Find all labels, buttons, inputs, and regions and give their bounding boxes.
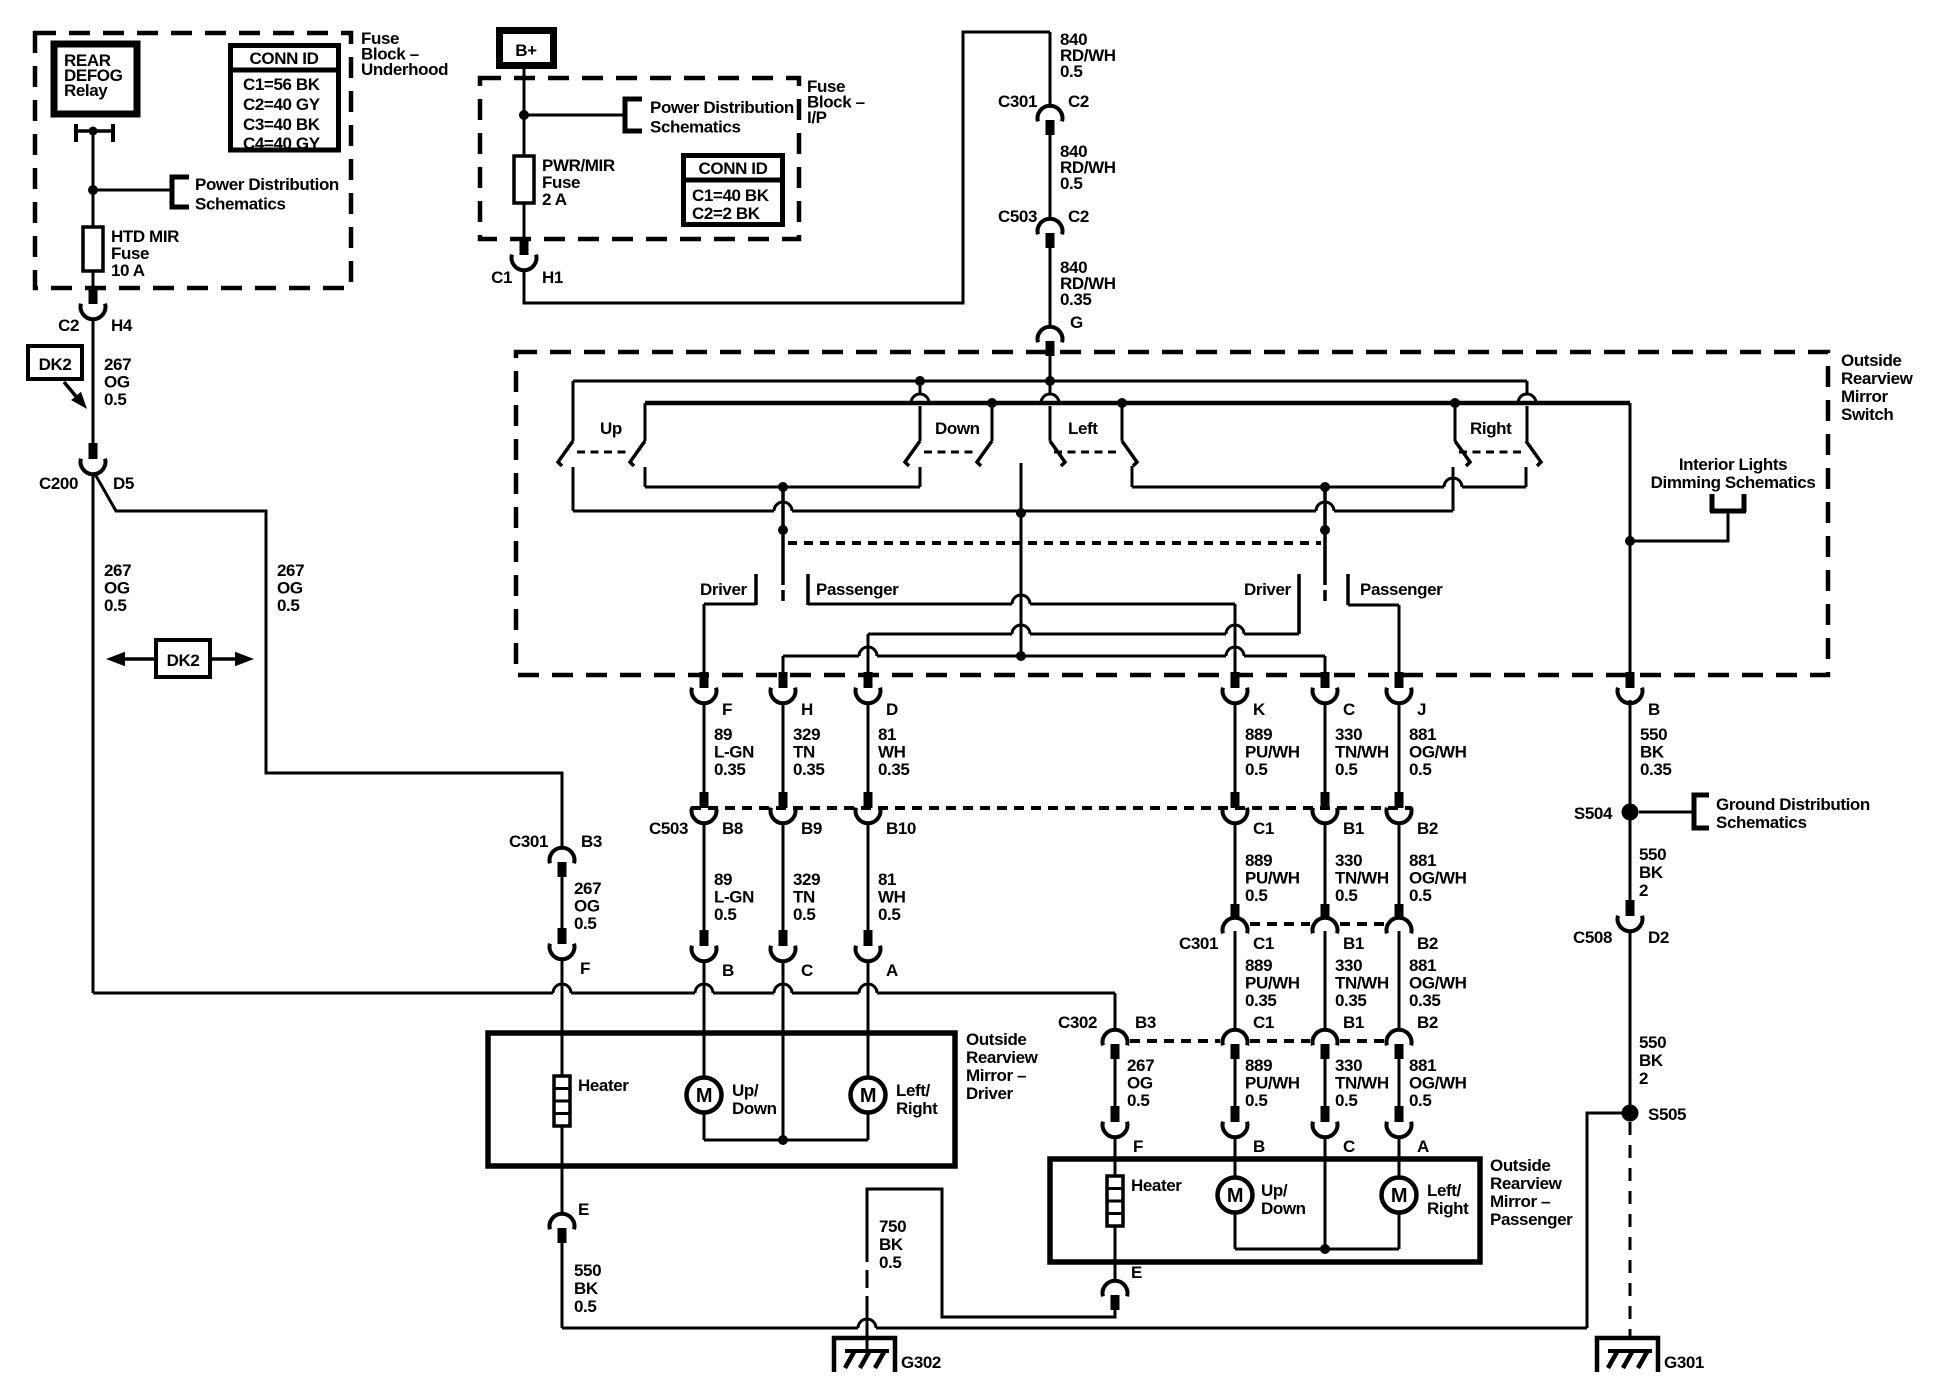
svg-text:H: H (801, 700, 813, 719)
svg-text:0.5: 0.5 (1245, 886, 1267, 905)
svg-text:Left: Left (1068, 419, 1098, 438)
wire relay to junction (92, 131, 95, 190)
svg-text:B3: B3 (581, 832, 602, 851)
wire 267 OG distribution line (93, 984, 1115, 993)
svg-text:0.5: 0.5 (714, 905, 736, 924)
wire down to passenger pin row (1234, 1059, 1237, 1106)
selector pivot left (781, 489, 785, 585)
svg-text:Outside: Outside (966, 1030, 1027, 1049)
connector C2/H4 (89, 288, 98, 304)
svg-text:329: 329 (793, 725, 820, 744)
wire B down to S504 (1629, 700, 1632, 804)
svg-text:0.5: 0.5 (793, 905, 815, 924)
wire A into driver mirror (867, 960, 870, 1033)
bus corner left inner (644, 403, 647, 441)
wire S505 to G301 (dashed) (1629, 1122, 1632, 1338)
svg-text:C: C (1343, 1137, 1355, 1156)
svg-text:L-GN: L-GN (714, 743, 754, 762)
svg-text:H1: H1 (542, 268, 563, 287)
wire down to C301 row (1398, 822, 1401, 904)
svg-text:G302: G302 (901, 1353, 941, 1372)
contact stub right-right (1525, 467, 1528, 487)
left-right pole feed (1121, 403, 1124, 441)
svg-text:B+: B+ (515, 41, 537, 60)
svg-text:BK: BK (1639, 863, 1664, 882)
svg-text:330: 330 (1335, 851, 1362, 870)
svg-text:G: G (1070, 313, 1083, 332)
connector pin A (driver mirror) (864, 930, 873, 946)
svg-text:330: 330 (1335, 725, 1362, 744)
svg-text:889: 889 (1245, 1056, 1272, 1075)
svg-text:DK2: DK2 (39, 355, 72, 374)
wire C301B3 down (561, 877, 564, 928)
wire C508 to S505 (1629, 930, 1632, 1105)
inner output line left (645, 486, 920, 489)
wire down to mirror pin row (867, 822, 870, 930)
svg-text:Driver: Driver (1244, 580, 1292, 599)
connector C1/H1 (520, 239, 529, 255)
svg-text:C3=40 BK: C3=40 BK (243, 115, 321, 134)
svg-text:881: 881 (1409, 956, 1436, 975)
svg-text:267: 267 (1127, 1056, 1154, 1075)
svg-text:TN: TN (793, 888, 815, 907)
motor M left/right (passenger) (1398, 1160, 1401, 1178)
splice S504 (1622, 804, 1639, 821)
svg-text:0.5: 0.5 (1127, 1091, 1149, 1110)
wire feed seg1 (1049, 32, 1052, 105)
svg-text:B10: B10 (886, 819, 916, 838)
svg-text:267: 267 (104, 355, 131, 374)
svg-text:B2: B2 (1417, 819, 1438, 838)
svg-text:F: F (580, 959, 590, 978)
svg-text:C: C (1343, 700, 1355, 719)
svg-text:CONN ID: CONN ID (250, 49, 319, 68)
svg-text:0.5: 0.5 (1335, 760, 1357, 779)
svg-text:Down: Down (935, 419, 980, 438)
wire down to passenger pin row (1324, 1059, 1327, 1106)
DK2 flag box with arrow (28, 346, 82, 379)
svg-text:D5: D5 (113, 474, 134, 493)
outside rearview mirror passenger (box) (1050, 1159, 1480, 1262)
connector pin J (switch) (1395, 672, 1404, 688)
svg-text:A: A (1417, 1137, 1429, 1156)
svg-text:89: 89 (714, 725, 732, 744)
svg-text:C1: C1 (1253, 934, 1274, 953)
svg-text:Up/: Up/ (732, 1081, 759, 1100)
switch S2 Down blades (905, 441, 920, 466)
connector C503 pin C1 (1231, 792, 1240, 808)
svg-text:OG: OG (104, 373, 130, 392)
connector pin E (driver mirror) (561, 1166, 564, 1213)
svg-text:267: 267 (104, 561, 131, 580)
wire F into passenger mirror (1114, 1136, 1117, 1160)
right-right pole feed with hop (1526, 381, 1529, 394)
switch S1 Up blades (558, 441, 573, 466)
connector C503 pin B2 (1395, 792, 1404, 808)
svg-text:C302: C302 (1058, 1013, 1097, 1032)
svg-text:Left/: Left/ (896, 1081, 931, 1100)
connector pin B (passenger mirror) (1231, 1106, 1240, 1122)
svg-text:Right: Right (896, 1099, 938, 1118)
svg-text:Right: Right (1470, 419, 1512, 438)
svg-text:D: D (886, 700, 898, 719)
connector C301 pin B2 (1395, 904, 1404, 918)
bus corner left outer (572, 381, 575, 441)
svg-text:Rearview: Rearview (966, 1048, 1039, 1067)
connector pin K (switch) (1231, 672, 1240, 688)
svg-text:K: K (1253, 700, 1266, 719)
svg-text:B: B (1648, 700, 1660, 719)
svg-text:B: B (1253, 1137, 1265, 1156)
svg-text:0.35: 0.35 (793, 760, 825, 779)
svg-text:F: F (722, 700, 732, 719)
svg-text:C508: C508 (1573, 928, 1612, 947)
svg-text:F: F (1133, 1137, 1143, 1156)
motor common line (passenger) (1235, 1248, 1399, 1251)
svg-text:B2: B2 (1417, 934, 1438, 953)
svg-text:89: 89 (714, 870, 732, 889)
svg-text:Rearview: Rearview (1841, 369, 1914, 388)
outer output line (573, 502, 1453, 511)
svg-text:C: C (801, 961, 813, 980)
left-left pole feed with hop (1049, 381, 1052, 394)
svg-text:S505: S505 (1648, 1105, 1686, 1124)
connector pin A (passenger mirror) (1395, 1106, 1404, 1122)
svg-text:Relay: Relay (64, 81, 108, 100)
wire down to C301 row (1234, 822, 1237, 904)
svg-text:0.5: 0.5 (879, 1253, 901, 1272)
connector C508/D2 (1626, 900, 1635, 916)
down-left pole feed with hop (919, 381, 922, 394)
svg-text:267: 267 (277, 561, 304, 580)
B branch corner (1629, 403, 1632, 673)
wire S504 to C508 (1629, 820, 1632, 900)
relay K: REAR DEFOG Relay box (54, 44, 137, 114)
svg-text:2 A: 2 A (542, 190, 567, 209)
driver contact left (754, 574, 758, 605)
connector C301/C2 (1038, 106, 1063, 122)
wire B1 down (1324, 931, 1327, 1029)
svg-text:DK2: DK2 (167, 651, 200, 670)
wire F down to C503 row (703, 703, 706, 792)
right-left pole feed (1454, 403, 1457, 441)
wire passenger E to G302 (867, 1189, 1115, 1317)
wire B2 down (1398, 931, 1401, 1029)
wire J down to C503 row (1398, 703, 1401, 792)
svg-text:0.35: 0.35 (1060, 290, 1092, 309)
wire C2H4 down to C200 (92, 318, 95, 443)
junction dot (88, 185, 98, 195)
svg-text:M: M (1227, 1185, 1243, 1207)
svg-text:0.5: 0.5 (878, 905, 900, 924)
thin top bus (573, 380, 1527, 383)
svg-text:B1: B1 (1343, 819, 1364, 838)
svg-text:C1: C1 (1253, 1013, 1274, 1032)
svg-text:Passenger: Passenger (816, 580, 899, 599)
ground G301 (1597, 1338, 1658, 1372)
wire B into passenger mirror (1234, 1136, 1237, 1160)
conn id table (I/P) (684, 156, 783, 225)
contact stub up-left (572, 467, 575, 511)
down-right pole feed (991, 403, 994, 441)
svg-text:TN: TN (793, 743, 815, 762)
connector C302 row dashed (1130, 1039, 1220, 1043)
connector C503 pin B9 (779, 792, 788, 808)
svg-text:Driver: Driver (966, 1084, 1014, 1103)
connector C302/B3 (1102, 1030, 1127, 1046)
svg-text:B2: B2 (1417, 1013, 1438, 1032)
contact stub right-left with hop (1452, 467, 1455, 511)
svg-text:Up: Up (600, 419, 622, 438)
svg-text:OG/WH: OG/WH (1409, 869, 1467, 888)
power terminal B+ box (500, 31, 554, 66)
svg-text:Down: Down (1261, 1199, 1306, 1218)
connector pin C (driver mirror) (779, 930, 788, 946)
connector C503 pin B8 (700, 792, 709, 808)
svg-text:C200: C200 (39, 474, 78, 493)
connector pin B (driver mirror) (700, 930, 709, 946)
selector pivot right (1323, 489, 1327, 585)
svg-text:Outside: Outside (1490, 1156, 1551, 1175)
connector pin D (switch) (864, 672, 873, 688)
svg-text:881: 881 (1409, 851, 1436, 870)
wire F into driver mirror (561, 958, 564, 1033)
svg-text:OG/WH: OG/WH (1409, 974, 1467, 993)
heater element (passenger) (1114, 1160, 1117, 1176)
connector C302row pin B1 (1312, 1030, 1337, 1046)
relay contact symbol below relay (74, 124, 78, 142)
svg-text:OG: OG (1127, 1074, 1153, 1093)
svg-text:WH: WH (878, 743, 906, 762)
svg-text:OG/WH: OG/WH (1409, 1074, 1467, 1093)
svg-text:PU/WH: PU/WH (1245, 869, 1300, 888)
svg-text:S504: S504 (1574, 804, 1613, 823)
svg-text:G301: G301 (1664, 1353, 1704, 1372)
connector pin B (switch) (1626, 672, 1635, 688)
motor M up/down (passenger) (1234, 1160, 1237, 1178)
svg-text:OG/WH: OG/WH (1409, 743, 1467, 762)
svg-text:889: 889 (1245, 851, 1272, 870)
svg-text:BK: BK (574, 1279, 599, 1298)
svg-text:0.5: 0.5 (1245, 760, 1267, 779)
svg-text:0.35: 0.35 (1245, 991, 1277, 1010)
svg-text:OG: OG (104, 579, 130, 598)
wire H down to C503 row (782, 703, 785, 792)
switch S4 link (1459, 451, 1524, 454)
svg-text:Outside: Outside (1841, 351, 1902, 370)
inner output line right (1132, 478, 1526, 487)
svg-text:D2: D2 (1648, 928, 1669, 947)
common line H-C (783, 647, 1325, 656)
svg-text:Dimming Schematics: Dimming Schematics (1651, 473, 1816, 492)
svg-text:881: 881 (1409, 1056, 1436, 1075)
DK2 box with double arrow (156, 640, 210, 677)
connector C503/C2 (1038, 219, 1063, 235)
svg-text:0.5: 0.5 (104, 596, 126, 615)
svg-text:0.35: 0.35 (1335, 991, 1367, 1010)
wire to power distribution bracket (93, 189, 172, 192)
svg-text:0.35: 0.35 (878, 760, 910, 779)
svg-text:B3: B3 (1135, 1013, 1156, 1032)
svg-text:B1: B1 (1343, 1013, 1364, 1032)
svg-text:C301: C301 (509, 832, 548, 851)
svg-text:Mirror –: Mirror – (1490, 1192, 1550, 1211)
switch S3 link (1054, 451, 1120, 454)
svg-text:C301: C301 (1179, 934, 1218, 953)
fuse F1: HTD MIR Fuse 10 A (92, 190, 95, 227)
svg-text:C301: C301 (998, 92, 1037, 111)
svg-text:550: 550 (1639, 845, 1666, 864)
switch S2 link (924, 451, 976, 454)
fuse block - I/P (dashed box) (480, 78, 799, 239)
motor M left/right (driver) (867, 1033, 870, 1078)
connector C503 pin B10 (864, 792, 873, 808)
svg-text:J: J (1417, 700, 1426, 719)
connector C301 row dashed (1250, 922, 1310, 926)
connector C302row pin B2 (1387, 1030, 1412, 1046)
svg-text:0.35: 0.35 (1640, 760, 1672, 779)
wire C1 down (1234, 931, 1237, 1029)
splice S505 (1622, 1105, 1639, 1122)
passenger contact left (806, 574, 810, 605)
svg-text:Heater: Heater (1131, 1176, 1182, 1195)
svg-text:PU/WH: PU/WH (1245, 974, 1300, 993)
svg-text:0.5: 0.5 (1409, 886, 1431, 905)
wire feed seg2 (1049, 135, 1052, 218)
wire B into driver mirror (703, 960, 706, 1033)
svg-text:0.35: 0.35 (714, 760, 746, 779)
svg-text:C2=2 BK: C2=2 BK (692, 204, 761, 223)
svg-text:0.5: 0.5 (574, 914, 596, 933)
svg-text:C4=40 GY: C4=40 GY (243, 134, 321, 153)
interior lights branch (1630, 513, 1728, 541)
svg-text:TN/WH: TN/WH (1335, 869, 1389, 888)
svg-text:E: E (1131, 1263, 1142, 1282)
wire branch diagonal to 2nd run (95, 474, 562, 847)
svg-text:Up/: Up/ (1261, 1181, 1288, 1200)
svg-text:C503: C503 (649, 819, 688, 838)
svg-text:0.5: 0.5 (1245, 1091, 1267, 1110)
wire down to mirror pin row (782, 822, 785, 930)
svg-text:BK: BK (879, 1235, 904, 1254)
svg-text:Schematics: Schematics (195, 195, 286, 214)
wire to power distribution bracket (I/P) (524, 114, 625, 117)
connector C200/D5 (89, 443, 98, 459)
svg-text:Passenger: Passenger (1360, 580, 1443, 599)
wire C into driver mirror (782, 960, 785, 1033)
svg-text:A: A (886, 961, 898, 980)
connector pin C (passenger mirror) (1321, 1106, 1330, 1122)
svg-text:I/P: I/P (807, 108, 827, 127)
svg-text:TN/WH: TN/WH (1335, 974, 1389, 993)
connector pin F (driver mirror) (558, 928, 567, 944)
svg-text:0.5: 0.5 (104, 390, 126, 409)
svg-text:Driver: Driver (700, 580, 748, 599)
junction dot B+ (519, 110, 529, 120)
driver contact right (1297, 574, 1301, 634)
svg-text:E: E (578, 1200, 589, 1219)
svg-text:B1: B1 (1343, 934, 1364, 953)
wire down to passenger pin row (1398, 1059, 1401, 1106)
svg-text:Right: Right (1427, 1199, 1469, 1218)
bracket: power distribution schematics (I/P) (625, 99, 642, 131)
svg-text:C1: C1 (491, 268, 512, 287)
svg-text:Passenger: Passenger (1490, 1210, 1573, 1229)
outside rearview mirror driver (box) (488, 1033, 955, 1166)
wire G into switch box (1049, 356, 1052, 381)
connector C503 row dashed line (691, 806, 1412, 810)
svg-text:M: M (1391, 1185, 1407, 1207)
wire B+ down (523, 69, 526, 156)
wire C200 down left branch (92, 473, 95, 993)
svg-text:C1: C1 (1253, 819, 1274, 838)
switch S1 link (577, 451, 629, 454)
connector C503 pin B1 (1321, 792, 1330, 808)
contact stub left-right (1131, 466, 1134, 487)
svg-text:81: 81 (878, 725, 896, 744)
svg-text:0.5: 0.5 (1409, 760, 1431, 779)
motor M up/down (driver) (703, 1033, 706, 1078)
connector pin E (passenger mirror) (1114, 1262, 1117, 1280)
center common wire (1020, 463, 1023, 656)
thick inner bus (645, 401, 1630, 406)
svg-text:330: 330 (1335, 956, 1362, 975)
svg-text:Underhood: Underhood (361, 60, 448, 79)
connector pin F (passenger mirror) (1111, 1106, 1120, 1122)
svg-text:C1=56 BK: C1=56 BK (243, 75, 321, 94)
svg-text:C2=40 GY: C2=40 GY (243, 95, 321, 114)
svg-text:889: 889 (1245, 725, 1272, 744)
svg-text:2: 2 (1639, 881, 1648, 900)
svg-text:M: M (696, 1085, 712, 1107)
svg-text:0.5: 0.5 (1409, 1091, 1431, 1110)
svg-text:B8: B8 (722, 819, 743, 838)
svg-text:C1=40 BK: C1=40 BK (692, 186, 770, 205)
passenger contact right (1346, 574, 1350, 605)
svg-text:Down: Down (732, 1099, 777, 1118)
wire feed seg3 (1049, 248, 1052, 326)
wire A into passenger mirror (1398, 1136, 1401, 1160)
heater element (driver) (561, 1033, 564, 1076)
svg-text:0.5: 0.5 (1060, 174, 1082, 193)
svg-text:M: M (860, 1085, 876, 1107)
switch S3 Left blades (1050, 441, 1065, 466)
connector C301/B3 (550, 848, 575, 864)
svg-text:0.5: 0.5 (277, 596, 299, 615)
switch S4 Right blades (1455, 441, 1470, 466)
svg-text:2: 2 (1639, 1069, 1648, 1088)
conn id table (underhood) (231, 46, 339, 151)
svg-text:OG: OG (277, 579, 303, 598)
svg-text:81: 81 (878, 870, 896, 889)
svg-text:750: 750 (879, 1217, 906, 1236)
svg-text:Interior Lights: Interior Lights (1679, 455, 1787, 474)
svg-text:Heater: Heater (578, 1076, 629, 1095)
wire down to mirror pin row (703, 822, 706, 930)
svg-text:267: 267 (574, 879, 601, 898)
wire K down to C503 row (1234, 703, 1237, 792)
svg-text:0.35: 0.35 (1409, 991, 1441, 1010)
svg-text:C2: C2 (1068, 207, 1089, 226)
svg-text:BK: BK (1640, 743, 1665, 762)
svg-text:Rearview: Rearview (1490, 1174, 1563, 1193)
svg-text:TN/WH: TN/WH (1335, 743, 1389, 762)
svg-text:Schematics: Schematics (1716, 813, 1807, 832)
contact stub down-left (919, 467, 922, 487)
wire down to C301 row (1324, 822, 1327, 904)
svg-text:550: 550 (1640, 725, 1667, 744)
svg-text:BK: BK (1639, 1051, 1664, 1070)
